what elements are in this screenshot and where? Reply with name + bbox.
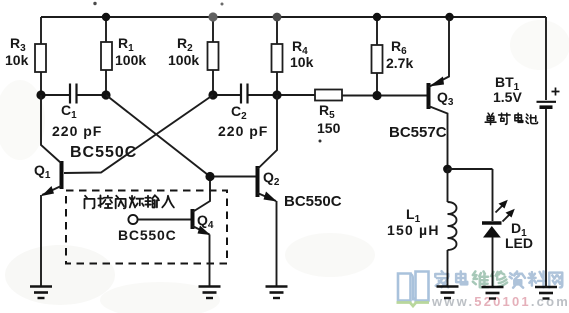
wire: R3 top lead: [40, 17, 42, 44]
junction node E R6 bottom: [372, 91, 381, 100]
ground Q4: [199, 287, 221, 299]
wire: R4 top lead: [276, 17, 278, 44]
wire: Q2 emitter to ground: [276, 201, 278, 286]
svg-text:100k: 100k: [115, 52, 146, 68]
input terminal circle: [128, 215, 137, 224]
stray scan dot top mid: [221, 3, 224, 6]
resistor R5: [315, 90, 342, 101]
LED light arrow 2: [503, 209, 515, 222]
wire: R2 top lead: [212, 17, 214, 42]
wire: R6 top lead: [376, 17, 378, 45]
battery BT1 positive plate: [537, 101, 557, 103]
svg-text:2.7k: 2.7k: [386, 55, 413, 71]
battery BT1 negative plate: [540, 105, 553, 109]
svg-text:www.520101.com: www.520101.com: [431, 294, 569, 309]
gate control dashed box: [66, 191, 227, 264]
junction node D top rail: [273, 13, 282, 22]
wire: R4 bottom lead to node D: [276, 72, 278, 95]
wire: R1 bottom lead to node B: [105, 70, 107, 95]
junction R6 top rail: [373, 13, 381, 21]
wire: cross coupling node B to Q2 base node: [106, 95, 210, 177]
wire: R1 top lead: [105, 17, 107, 42]
wire: Q2 base horizontal: [210, 176, 256, 178]
junction node B top rail: [102, 13, 110, 21]
inductor L1: [448, 202, 457, 250]
junction node C: [208, 90, 217, 99]
transistor Q4 emitter: [193, 226, 210, 235]
label battery type (Chinese) single cell: [485, 113, 537, 124]
wire: R6 bottom lead: [376, 73, 378, 96]
junction node D: [272, 90, 281, 99]
wire: R2 bottom lead to node C: [212, 70, 214, 95]
svg-text:220 pF: 220 pF: [52, 123, 102, 139]
stray scan dot mid: [319, 140, 322, 143]
wire: Q4 emitter to ground: [209, 235, 211, 287]
svg-text:1.5V: 1.5V: [493, 89, 522, 105]
svg-text:BC550C: BC550C: [70, 144, 137, 161]
transistor Q2 emitter: [258, 193, 277, 201]
transistor Q3 emitter arrow (PNP into base): [429, 77, 444, 87]
svg-text:10k: 10k: [290, 54, 314, 70]
ground Q1: [30, 287, 52, 299]
wire: node C to C2 left plate: [213, 94, 240, 96]
transistor Q2 collector: [258, 95, 278, 169]
junction Q3 emitter top rail: [445, 13, 453, 21]
svg-text:BC550C: BC550C: [118, 227, 177, 243]
ground L1: [437, 287, 459, 299]
watermark book icon: [397, 272, 430, 307]
svg-text:150 µH: 150 µH: [387, 222, 440, 238]
wire: battery positive from rail: [545, 17, 547, 100]
transistor Q3 base bar: [427, 83, 431, 109]
junction node C top rail: [208, 12, 217, 21]
transistor Q4 base bar: [191, 209, 195, 229]
resistor R6: [372, 45, 383, 73]
wire: inductor to ground: [447, 250, 449, 286]
junction Q3 collector node F: [443, 165, 452, 174]
svg-text:220 pF: 220 pF: [218, 123, 268, 139]
wire: R5 right lead to node E and Q3 base: [342, 95, 427, 97]
wire: battery negative to ground: [545, 109, 547, 286]
resistor R2: [208, 42, 219, 70]
svg-text:10k: 10k: [5, 52, 29, 68]
ground D1: [482, 287, 504, 299]
ground battery: [535, 287, 557, 299]
wire: node D to R5 left lead: [277, 94, 315, 96]
junction node B: [101, 90, 110, 99]
wire: node F down to inductor: [447, 169, 449, 202]
wire: node A to C1 left plate: [41, 94, 69, 96]
transistor Q2 base bar: [256, 166, 260, 197]
transistor Q2 emitter arrow: [264, 192, 278, 202]
stray scan dot top left: [93, 2, 96, 5]
wire: C2 right plate to node D: [249, 94, 278, 96]
watermark Chinese text: [435, 271, 562, 287]
transistor Q4 emitter arrow: [198, 226, 211, 236]
wire: input terminal to Q4 base: [138, 219, 191, 221]
junction node A: [36, 90, 45, 99]
ground Q2: [266, 287, 288, 299]
resistor R4: [272, 44, 283, 72]
battery plus sign: [552, 88, 560, 96]
LED D1 cathode bar: [482, 221, 502, 224]
wire: cross coupling node C to Q1 base: [64, 95, 213, 173]
transistor Q3 collector: [429, 106, 448, 169]
capacitor C2: [241, 84, 248, 104]
svg-text:BC557C: BC557C: [389, 124, 447, 141]
svg-text:100k: 100k: [168, 52, 199, 68]
wire: LED anode to ground: [492, 238, 494, 287]
wire: top supply rail: [41, 16, 546, 18]
transistor Q3 emitter: [429, 17, 450, 87]
wire: LED branch down to cathode: [492, 169, 494, 221]
wire: R3 bottom lead to node A: [40, 72, 42, 95]
transistor Q1 collector: [41, 95, 61, 163]
resistor R3: [35, 44, 46, 72]
transistor Q1 emitter: [42, 186, 61, 195]
wire: node F to LED branch: [448, 168, 493, 170]
label gate flashing input (Chinese): [84, 195, 173, 208]
wire: Q1 emitter to ground: [40, 195, 42, 286]
capacitor C1: [70, 84, 77, 104]
LED D1 triangle: [483, 226, 501, 238]
transistor Q4 collector: [193, 181, 211, 212]
svg-text:BC550C: BC550C: [284, 193, 342, 210]
LED light arrow 1: [496, 200, 508, 213]
svg-text:LED: LED: [505, 235, 533, 251]
wire: C1 right plate to node B: [78, 94, 107, 96]
junction Q2 base / Q4 collector: [205, 172, 214, 181]
transistor Q1 base bar: [60, 161, 64, 189]
transistor Q1 emitter arrow: [42, 186, 55, 196]
svg-text:150: 150: [317, 120, 341, 136]
resistor R1: [101, 42, 112, 70]
